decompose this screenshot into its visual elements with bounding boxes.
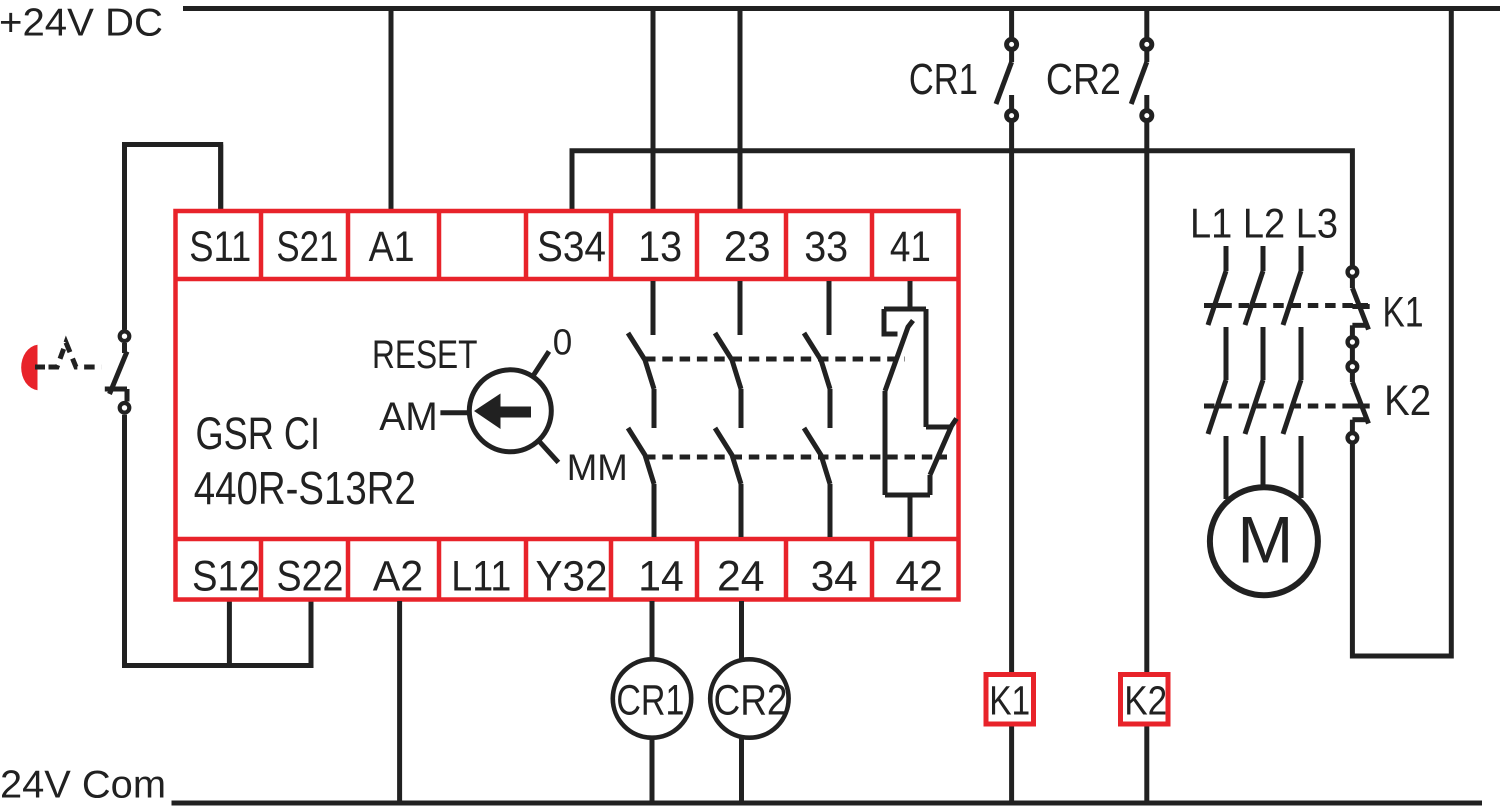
terminal circle e-stop bottom: [120, 403, 130, 413]
wire CR1 coil to rail: [650, 738, 655, 803]
dashed link line upper contacts: [645, 357, 905, 362]
terminal circle K1 aux bottom: [1348, 337, 1358, 347]
terminal cell divider bottom 8: [870, 539, 875, 600]
terminal cell divider bottom 7: [784, 539, 789, 600]
svg-text:S21: S21: [276, 223, 338, 271]
wire CR2 contact to K2 coil: [1144, 121, 1149, 673]
wire S22 drop: [309, 601, 314, 668]
terminal cell divider bottom 3: [437, 539, 442, 600]
svg-text:AM: AM: [379, 395, 438, 439]
contact 23-24 link lead: [739, 389, 744, 428]
wire rail to terminal 23: [738, 9, 743, 214]
terminal circle e-stop top: [120, 331, 130, 341]
terminal cell divider top 8: [870, 211, 875, 279]
wire rail to CR1 contact: [1009, 9, 1014, 40]
rotary position line AM: [440, 410, 468, 415]
terminal circle K1 aux top: [1348, 267, 1358, 277]
contact 33-34 link lead: [828, 389, 833, 428]
terminal cell divider top 4: [524, 211, 529, 279]
contact CR2 NO: [1144, 50, 1149, 62]
svg-text:S11: S11: [189, 223, 251, 271]
svg-text:41: 41: [890, 223, 931, 271]
terminal cell divider bottom 2: [346, 539, 351, 600]
wire rail to CR2 contact: [1144, 9, 1149, 40]
dashed link line K2 contacts: [1204, 404, 1368, 409]
wire 14 to CR1 coil: [650, 601, 655, 659]
contact 13-14 link lead: [652, 389, 657, 428]
svg-text:A1: A1: [369, 223, 415, 271]
contact ES1 NC (positive opening): [110, 352, 128, 395]
terminal circle K2 aux top: [1348, 362, 1358, 372]
terminal cell divider bottom 1: [259, 539, 264, 600]
contact 41-42 NC forced-guided pair: [908, 281, 913, 309]
dashed mechanical linkage e-stop: [49, 343, 102, 368]
contact K2 aux NC: [1350, 373, 1355, 383]
svg-text:CR2: CR2: [714, 677, 788, 725]
terminal cell divider top 1: [259, 211, 264, 279]
svg-text:L11: L11: [451, 553, 511, 600]
contact 33-34 lower NO: [804, 428, 830, 484]
svg-text:33: 33: [804, 223, 848, 271]
terminal circle CR1 bottom: [1007, 111, 1017, 121]
svg-text:GSR CI: GSR CI: [196, 408, 321, 459]
terminal strip divider bottom: [176, 537, 959, 542]
wire A2 to bottom rail: [397, 601, 402, 803]
contact K1 L1 NO: [1208, 271, 1226, 325]
contact 13-14 upper NO: [651, 281, 656, 335]
svg-text:S22: S22: [277, 553, 344, 600]
svg-text:MM: MM: [567, 446, 628, 488]
svg-text:L1 L2 L3: L1 L2 L3: [1190, 200, 1338, 247]
svg-text:14: 14: [638, 553, 684, 600]
safety relay U1 outer box: [176, 211, 959, 600]
svg-text:RESET: RESET: [372, 333, 478, 377]
svg-text:24: 24: [717, 553, 765, 600]
contact K1 aux NC: [1350, 278, 1355, 288]
svg-text:K2: K2: [1384, 377, 1431, 425]
wire K1 coil to bottom rail: [1009, 726, 1014, 804]
svg-text:+24V DC: +24V DC: [0, 2, 163, 45]
wire e-stop top corner: [125, 145, 221, 330]
svg-text:23: 23: [724, 223, 771, 271]
relay coil CR1: [613, 659, 691, 737]
terminal circle K2 aux bottom: [1348, 433, 1358, 443]
wire e-stop bottom to S12/S22 jumper: [125, 415, 312, 666]
wire CR1 contact to K1 coil: [1009, 121, 1014, 673]
svg-text:S34: S34: [537, 223, 606, 271]
svg-text:440R-S13R2: 440R-S13R2: [194, 462, 416, 514]
rotary position line MM: [538, 440, 558, 462]
contact 13-14 lower NO: [628, 428, 654, 484]
svg-text:K1: K1: [989, 678, 1030, 724]
dashed link line lower contacts: [645, 455, 947, 460]
wire +24V DC top rail: [183, 6, 1500, 11]
motor M1: [1210, 487, 1318, 595]
rotary switch arrow: [474, 394, 531, 430]
svg-text:A2: A2: [373, 553, 424, 600]
rotary position line 0: [532, 351, 549, 377]
wire aux chain to right rail: [1352, 9, 1451, 657]
terminal cell divider top 5: [609, 211, 614, 279]
svg-text:0: 0: [553, 321, 573, 362]
terminal cell divider bottom 5: [609, 539, 614, 600]
terminal cell divider top 7: [784, 211, 789, 279]
wire L2 to motor: [1261, 436, 1266, 485]
wire phase L1 lead: [1224, 246, 1229, 271]
terminal cell divider bottom 6: [695, 539, 700, 600]
svg-text:Y32: Y32: [536, 553, 608, 600]
wire S11 drop: [218, 145, 223, 214]
contact K1 L3 NO: [1283, 271, 1301, 325]
wire CR2 coil to rail: [739, 738, 744, 803]
wire L3 to motor: [1299, 436, 1304, 498]
terminal cell divider top 6: [695, 211, 700, 279]
terminal cell divider top 2: [346, 211, 351, 279]
terminal strip divider top: [176, 277, 959, 282]
svg-text:13: 13: [638, 223, 682, 271]
wire S34 to contactor chain: [572, 151, 1352, 266]
contact 23-24 lower NO: [715, 428, 741, 484]
wire 24V Com bottom rail: [172, 801, 1483, 806]
dashed link line K1 contacts: [1204, 303, 1368, 308]
terminal cell divider bottom 4: [524, 539, 529, 600]
contactor coil K2 box: [1121, 675, 1169, 725]
contactor coil K1 box: [986, 675, 1034, 725]
wire 24 to CR2 coil: [739, 601, 744, 659]
terminal circle CR2 top: [1142, 39, 1152, 49]
rotary switch RESET knob: [469, 370, 551, 452]
contact K2 L3 NO: [1283, 380, 1301, 434]
svg-text:42: 42: [895, 553, 943, 600]
svg-text:24V Com: 24V Com: [0, 764, 166, 807]
contact CR1 NO: [1009, 50, 1014, 62]
wire rail to A1: [389, 9, 394, 214]
contact K2 L1 NO: [1208, 380, 1226, 434]
svg-text:M: M: [1237, 503, 1293, 576]
terminal circle CR1 top: [1007, 39, 1017, 49]
wire between aux contacts: [1350, 348, 1355, 361]
wire phase L3 lead: [1299, 246, 1304, 271]
svg-text:CR1: CR1: [616, 677, 684, 725]
svg-text:K1: K1: [1383, 288, 1424, 336]
wire phase L2 lead: [1261, 246, 1266, 271]
svg-text:34: 34: [811, 553, 858, 600]
svg-text:CR1: CR1: [909, 55, 978, 104]
wire K2 coil to bottom rail: [1144, 726, 1149, 804]
contact 23-24 upper NO: [738, 281, 743, 335]
terminal circle CR2 bottom: [1142, 111, 1152, 121]
wire rail to terminal 13: [651, 9, 656, 214]
svg-text:S12: S12: [192, 553, 260, 600]
terminal cell divider top 3: [437, 211, 442, 279]
relay coil CR2: [710, 659, 788, 737]
contact K1 L2 NO: [1245, 271, 1263, 325]
contact 33-34 upper NO: [827, 281, 832, 335]
wire S12 drop: [227, 601, 232, 666]
svg-text:CR2: CR2: [1046, 55, 1121, 104]
contact K2 L2 NO: [1245, 380, 1263, 434]
pushbutton ES1 e-stop mushroom head: [21, 345, 37, 390]
svg-text:K2: K2: [1124, 678, 1167, 724]
wire L1 to motor: [1224, 436, 1229, 499]
